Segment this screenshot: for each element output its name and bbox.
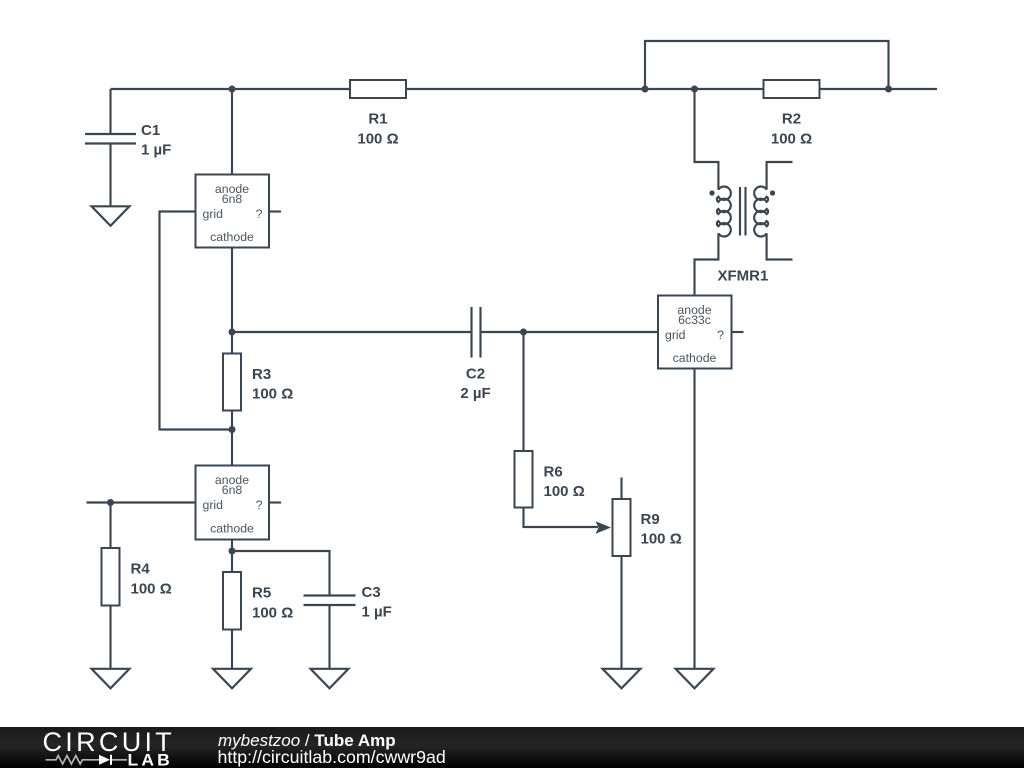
svg-text:R5: R5: [252, 585, 271, 602]
svg-text:6c33c: 6c33c: [678, 313, 711, 327]
wire tube1 anode lead: [231, 89, 233, 175]
svg-text:100 Ω: 100 Ω: [544, 483, 585, 500]
wire tube2 right stub: [269, 501, 281, 503]
svg-text:100 Ω: 100 Ω: [131, 581, 172, 598]
ground C3: [311, 669, 349, 689]
svg-text:cathode: cathode: [210, 522, 254, 536]
node top-rail bracket right: [885, 86, 892, 93]
primary winding: [717, 187, 731, 237]
svg-text:C3: C3: [362, 584, 381, 601]
wire 6c33c cathode lead: [693, 369, 695, 669]
svg-text:?: ?: [256, 498, 263, 512]
svg-text:grid: grid: [665, 328, 686, 342]
svg-text:C2: C2: [466, 366, 485, 383]
svg-text:R1: R1: [368, 111, 387, 128]
primary top lead: [695, 89, 719, 190]
wire 6c33c right stub: [732, 331, 744, 333]
ground R5: [213, 669, 251, 689]
ground R9: [603, 669, 641, 689]
wire top rail right segment: [820, 88, 938, 90]
wire tube2 anode lead: [231, 430, 233, 466]
resistor R5: [223, 551, 293, 669]
resistor R1: [350, 80, 406, 148]
svg-text:R2: R2: [782, 111, 801, 128]
svg-text:100 Ω: 100 Ω: [771, 131, 812, 148]
capacitor C2: [460, 307, 490, 402]
wire tube2 cathode lead: [231, 540, 233, 552]
wiper arrow into R9: [596, 521, 612, 533]
resistor R6: [515, 332, 599, 527]
wire mid row left: [232, 331, 471, 333]
wire top rail middle segment: [406, 88, 764, 90]
potentiometer R9: [613, 478, 682, 669]
wire tube1 cathode lead: [231, 248, 233, 333]
logo diode: [99, 755, 110, 765]
svg-text:LAB: LAB: [128, 751, 174, 768]
op-amp U1 tube 6n8 upper: [196, 175, 270, 248]
capacitor C1: [85, 89, 171, 206]
secondary winding: [754, 187, 768, 237]
primary phase dot: [709, 190, 714, 195]
svg-text:R9: R9: [641, 511, 660, 528]
node tube2 cathode: [229, 548, 236, 555]
footer bar: [0, 727, 1024, 768]
svg-text:2 µF: 2 µF: [460, 385, 490, 402]
svg-text:100 Ω: 100 Ω: [641, 531, 682, 548]
svg-text:grid: grid: [203, 207, 224, 221]
svg-text:http://circuitlab.com/cwwr9ad: http://circuitlab.com/cwwr9ad: [218, 747, 446, 767]
core lines: [739, 187, 741, 236]
resistor R4: [102, 503, 172, 669]
svg-text:6n8: 6n8: [222, 483, 243, 497]
transformer XFMR1: [695, 89, 793, 296]
svg-text:cathode: cathode: [210, 230, 254, 244]
wire top bypass bracket: [645, 41, 889, 89]
svg-text:XFMR1: XFMR1: [718, 268, 769, 285]
svg-text:1 µF: 1 µF: [362, 604, 392, 621]
secondary top lead: [767, 162, 793, 190]
ground R4: [92, 669, 130, 689]
svg-text:100 Ω: 100 Ω: [252, 605, 293, 622]
svg-text:100 Ω: 100 Ω: [357, 131, 398, 148]
svg-text:6n8: 6n8: [222, 192, 243, 206]
secondary phase dot: [770, 190, 775, 195]
node top-rail tube1 anode: [229, 86, 236, 93]
node mid row left: [229, 329, 236, 336]
node tube2 grid R4 tap: [107, 499, 114, 506]
node R3 bottom: [229, 426, 236, 433]
primary bottom lead: [695, 233, 719, 295]
svg-text:R3: R3: [252, 366, 271, 383]
svg-text:R4: R4: [131, 561, 151, 578]
svg-text:C1: C1: [141, 122, 160, 139]
wire tube2 grid lead: [87, 501, 196, 503]
op-amp U3 tube 6c33c: [658, 296, 732, 369]
svg-text:R6: R6: [544, 464, 563, 481]
node top-rail transformer tap: [691, 86, 698, 93]
ground 6c33c cathode: [676, 669, 714, 689]
resistor R3: [223, 332, 293, 430]
svg-text:100 Ω: 100 Ω: [252, 386, 293, 403]
wire top rail left segment: [111, 88, 351, 90]
logo resistor zigzag: [46, 756, 99, 764]
node top-rail bracket left: [642, 86, 649, 93]
wire tube1 right stub: [269, 210, 281, 212]
svg-text:?: ?: [256, 207, 263, 221]
ground C1: [92, 206, 130, 226]
op-amp U2 tube 6n8 lower: [196, 466, 270, 540]
svg-text:cathode: cathode: [673, 351, 717, 365]
capacitor C3: [232, 551, 392, 669]
node mid row R6 tap: [520, 329, 527, 336]
svg-text:?: ?: [717, 328, 724, 342]
resistor R2: [764, 80, 820, 148]
wire mid row right: [482, 331, 659, 333]
wire tube1 grid feedback: [160, 212, 233, 430]
svg-text:grid: grid: [203, 498, 224, 512]
svg-text:1 µF: 1 µF: [141, 142, 171, 159]
secondary bottom lead: [767, 233, 793, 259]
